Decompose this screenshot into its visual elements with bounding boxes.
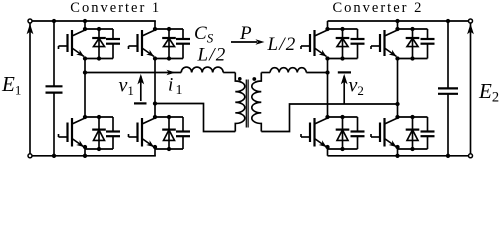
svg-text:L/2: L/2 (197, 45, 227, 66)
svg-text:P: P (239, 23, 252, 44)
svg-text:Converter 2: Converter 2 (333, 0, 424, 16)
svg-text:L/2: L/2 (267, 34, 297, 55)
svg-text:Converter 1: Converter 1 (70, 0, 161, 16)
